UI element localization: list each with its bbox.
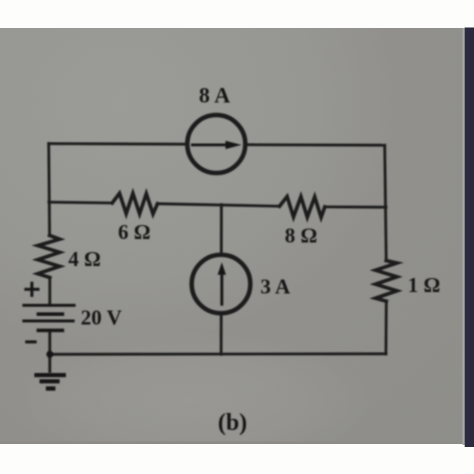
svg-text:4 Ω: 4 Ω	[68, 247, 101, 271]
svg-text:3 A: 3 A	[260, 275, 291, 299]
svg-text:8 A: 8 A	[199, 83, 230, 108]
arrow of 8A source	[191, 144, 227, 147]
current source I 8A circle	[187, 115, 245, 173]
battery plate long 3	[22, 320, 74, 323]
wire battery to bottom node	[48, 332, 51, 355]
wire 4ohm to battery	[48, 278, 51, 305]
resistor R 4ohm zigzag	[38, 235, 60, 277]
ground bar 2	[40, 379, 60, 383]
resistor R 8ohm zigzag	[280, 197, 325, 218]
minus sign of source	[25, 340, 36, 343]
ground bar 3	[46, 386, 56, 390]
wire ground stem	[48, 354, 51, 372]
svg-text:20 V: 20 V	[81, 306, 122, 330]
resistor R 1ohm zigzag	[376, 261, 398, 302]
wire middle rail lower (3A source to bottom)	[220, 315, 223, 354]
battery plate long top	[22, 304, 75, 307]
wire right rail upper	[385, 145, 387, 260]
wire left rail upper	[47, 144, 51, 236]
book cover navy strip	[465, 28, 474, 448]
svg-text:(b): (b)	[218, 410, 247, 436]
plus sign of source	[24, 288, 39, 291]
arrow of 3A source	[220, 273, 223, 306]
junction node dot	[46, 351, 53, 358]
svg-text:1 Ω: 1 Ω	[408, 273, 441, 297]
battery plate short 4	[37, 329, 65, 333]
wire top left horizontal (left rail top to 8A source)	[49, 142, 186, 145]
svg-text:8 Ω: 8 Ω	[285, 224, 318, 248]
page edge light line	[463, 28, 466, 445]
wire bottom horizontal	[50, 352, 386, 355]
wire middle horizontal right (8-ohm to right rail)	[325, 205, 386, 208]
wire middle rail upper (to 3A source)	[220, 205, 223, 253]
svg-text:6 Ω: 6 Ω	[118, 220, 151, 244]
wire right rail lower	[384, 301, 387, 354]
resistor R 6ohm zigzag	[112, 193, 157, 214]
wire middle horizontal center (6-ohm to 8-ohm)	[158, 204, 280, 207]
battery plate short 2	[37, 312, 65, 316]
current source I 3A circle	[192, 255, 251, 314]
wire middle horizontal left (left rail to 6-ohm)	[49, 201, 112, 205]
ground bar 1	[34, 373, 66, 377]
wire top right horizontal (8A source to right rail)	[247, 143, 385, 146]
